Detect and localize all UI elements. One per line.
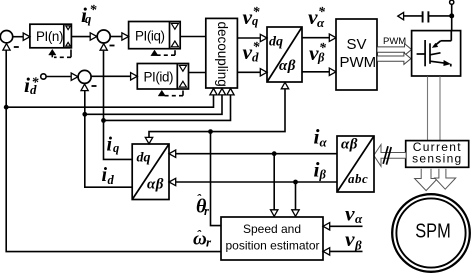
wire inverter to current sensing (3-phase bus) xyxy=(428,76,441,140)
S3 minus sign xyxy=(92,85,97,87)
svg-text:α: α xyxy=(317,15,325,30)
svg-text:decoupling: decoupling xyxy=(215,22,230,87)
terminal i*d input xyxy=(41,74,46,79)
wire iq feedback: from current dq block to S2 xyxy=(104,51,133,160)
svg-text:αβ: αβ xyxy=(279,58,296,74)
estimator arrowheads from i-alpha/i-beta (top) xyxy=(271,210,278,217)
wire i-alpha: abc block to current dq block xyxy=(175,153,337,155)
PI block PI(iq) with limiter xyxy=(129,22,181,49)
svg-text:v: v xyxy=(345,227,355,251)
estimator right input arrowhead v-alpha xyxy=(323,223,330,230)
svg-text:dq: dq xyxy=(269,35,283,50)
svg-text:q: q xyxy=(113,141,119,155)
PI block PI(n) with limiter xyxy=(30,24,72,48)
transform block U4: dq to alpha-beta (current feedback) xyxy=(132,144,169,200)
U1 bottom theta input arrowhead xyxy=(281,82,288,89)
wire speed-loop row: S1 to PI(n) xyxy=(13,36,24,38)
wire i-beta branch down to estimator xyxy=(295,182,297,210)
U4 top theta input arrowhead xyxy=(145,137,152,143)
S2 minus sign xyxy=(110,45,115,47)
arrowhead into PI(n) xyxy=(23,33,30,40)
capacitor C (DC link) xyxy=(423,11,429,22)
svg-text:v: v xyxy=(345,202,355,226)
SV PWM block xyxy=(336,19,377,90)
PWM hollow arrow 1 xyxy=(377,44,411,56)
wire dq out v-beta to SVPWM xyxy=(303,71,331,73)
svg-text:PI(n): PI(n) xyxy=(36,29,63,44)
arrowheads into SV PWM xyxy=(329,34,336,41)
wire capacitor left lead with brake arrow xyxy=(403,15,422,17)
hollow arrow current sensing to SPM (right) xyxy=(435,169,456,189)
svg-text:SV: SV xyxy=(347,36,367,53)
svg-text:i: i xyxy=(107,134,113,156)
current sensing block xyxy=(406,141,469,168)
wire i-beta: abc block to current dq block xyxy=(175,181,337,183)
junction dot iq/decoupling branch xyxy=(101,118,106,123)
speed and position estimator block xyxy=(221,217,323,260)
junction dot id/decoupling branch xyxy=(82,112,87,117)
svg-text:v: v xyxy=(243,40,253,64)
wire S1 negative input from below (omega feedback up left side) xyxy=(6,50,221,252)
svg-text:q: q xyxy=(85,12,91,26)
decoupling bottom input arrowheads xyxy=(210,88,217,95)
wire iq feedback branch to decoupling input 3 xyxy=(104,95,231,121)
svg-text:ˆ: ˆ xyxy=(197,191,202,206)
DC junction dot xyxy=(449,13,454,18)
wire theta net: estimator to junction and to both dq blocks xyxy=(149,132,221,226)
svg-text:d: d xyxy=(252,50,259,65)
summing junction S1 (speed) xyxy=(0,31,12,43)
arrowhead into PI(iq) xyxy=(122,33,129,40)
DC terminal xyxy=(450,0,454,4)
PI(id) anti-windup dashed feedback xyxy=(162,91,183,96)
wire v-beta input to estimator xyxy=(330,250,363,252)
PI(n) anti-windup dashed feedback xyxy=(52,50,71,58)
S2 negative-input arrowhead xyxy=(100,44,107,51)
wire decoupling q-out to dq block xyxy=(237,37,261,39)
svg-text:r: r xyxy=(204,204,209,218)
wire id feedback branch to decoupling input 2 xyxy=(85,95,222,115)
wire i*d terminal to S3 xyxy=(46,76,70,78)
svg-text:q: q xyxy=(252,14,258,28)
wire PI(n) out to S2 xyxy=(71,36,90,38)
PWM hollow arrow 2 xyxy=(377,53,411,65)
wire i-alpha branch down to estimator xyxy=(273,154,275,210)
S1 minus sign xyxy=(14,46,19,48)
wire omega branch to decoupling input 1 xyxy=(6,95,213,108)
svg-text:PWM: PWM xyxy=(383,36,406,47)
svg-text:v: v xyxy=(243,5,253,29)
hollow bus arrow: current sensing to alpha-beta/abc xyxy=(374,145,406,167)
PI(iq) limiter triangles xyxy=(171,23,178,29)
arrowhead into S3 xyxy=(71,73,78,80)
wire DC-link horizontal to capacitor xyxy=(429,15,452,17)
wire PI(id) out to decoupling xyxy=(189,72,206,74)
PI(n) limiter triangles xyxy=(66,26,71,30)
svg-text:position estimator: position estimator xyxy=(225,238,319,252)
wire v-alpha input to estimator xyxy=(330,225,363,227)
svg-text:Speed and: Speed and xyxy=(243,222,301,236)
junction dot omega/decoupling branch xyxy=(4,105,9,110)
svg-text:d: d xyxy=(30,82,37,97)
arrowhead into PI(id) xyxy=(131,73,138,80)
arrowhead into S2 xyxy=(90,33,97,40)
wire decoupling d-out to dq block xyxy=(237,71,261,73)
svg-text:αβ: αβ xyxy=(341,137,358,153)
wire DC-link top: terminal down to inverter xyxy=(451,4,453,31)
inverter block U2 xyxy=(412,31,461,76)
wire S2 out to PI(iq) xyxy=(110,36,125,38)
svg-text:d: d xyxy=(108,173,115,187)
svg-text:β: β xyxy=(319,168,327,182)
hollow arrow current sensing to SPM (left) xyxy=(415,169,438,191)
wire dq out v-alpha to SVPWM xyxy=(303,37,331,39)
svg-text:β: β xyxy=(354,238,362,253)
inverter symbol arrowhead lower (points right) xyxy=(444,60,451,65)
svg-text:sensing: sensing xyxy=(412,151,462,165)
summing junction S2 (iq loop) xyxy=(97,30,110,43)
svg-text:PI(id): PI(id) xyxy=(144,70,174,85)
svg-text:α: α xyxy=(320,135,328,150)
wire S3 out to PI(id) xyxy=(91,75,132,77)
bus 2-slash mark xyxy=(383,146,391,164)
estimator right input arrowhead v-beta xyxy=(323,248,330,255)
svg-text:PWM: PWM xyxy=(340,54,377,71)
svg-text:αβ: αβ xyxy=(147,177,164,193)
junction dot i-alpha branch xyxy=(272,151,277,156)
svg-text:PI(iq): PI(iq) xyxy=(135,29,165,44)
PI(iq) anti-windup dashed feedback xyxy=(155,50,176,55)
PI(id) limiter triangles xyxy=(179,65,186,71)
junction dot theta branch xyxy=(208,129,213,134)
svg-text:dq: dq xyxy=(137,151,151,166)
inverter IGBT symbol xyxy=(417,31,452,67)
wire theta branch to voltage dq block bottom xyxy=(211,89,286,132)
U4 right input arrowhead i-alpha xyxy=(169,150,176,157)
summing junction S3 (id loop) xyxy=(78,70,91,83)
junction dot i-beta branch xyxy=(293,180,298,185)
inverter symbol arrowhead upper (points lower-left) xyxy=(432,43,438,48)
wire PI(iq) out to decoupling xyxy=(180,36,206,38)
wire id feedback: from current dq block to S3 xyxy=(85,91,132,187)
svg-text:α: α xyxy=(355,211,363,226)
svg-text:abc: abc xyxy=(348,171,368,186)
S3 negative-input arrowhead xyxy=(81,84,88,91)
SPM motor M1 xyxy=(392,194,470,272)
transform block U3: alpha-beta to abc (current) xyxy=(337,136,374,192)
brake-chopper arrowhead (points left) xyxy=(398,12,404,19)
PI block PI(id) with limiter xyxy=(137,64,188,90)
S1 negative-input arrowhead xyxy=(3,44,10,51)
svg-text:SPM: SPM xyxy=(415,219,451,242)
transform block U1: dq to alpha-beta (voltage) xyxy=(267,27,302,82)
U4 right input arrowhead i-beta xyxy=(169,178,176,185)
svg-text:β: β xyxy=(317,51,325,65)
svg-text:ˆ: ˆ xyxy=(197,227,202,242)
decoupling block xyxy=(206,18,238,88)
arrowheads into voltage dq block xyxy=(260,34,267,41)
